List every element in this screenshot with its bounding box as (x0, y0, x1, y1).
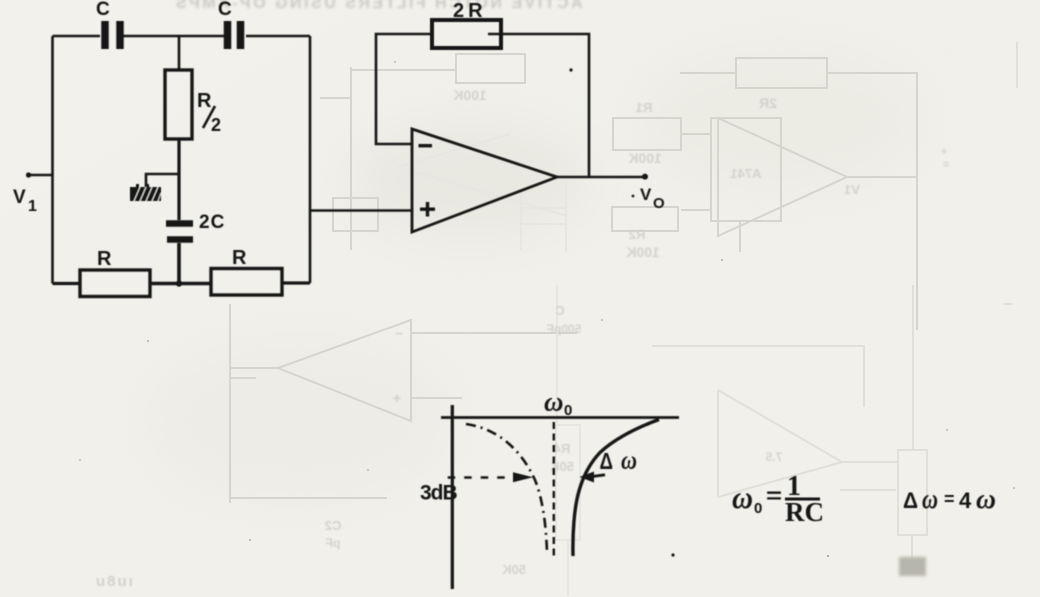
svg-text:C: C (96, 0, 110, 20)
svg-text:R4: R4 (553, 441, 570, 456)
svg-text:=: = (944, 489, 955, 509)
svg-text:C2: C2 (325, 518, 342, 533)
svg-text:1: 1 (28, 198, 37, 215)
svg-text:ω: ω (732, 479, 753, 515)
svg-text:O: O (653, 195, 665, 212)
svg-text:2R: 2R (453, 0, 487, 22)
svg-text:ω: ω (976, 484, 996, 515)
svg-text:R2: R2 (629, 227, 646, 242)
svg-text:R: R (197, 90, 212, 112)
svg-text:R: R (97, 248, 112, 270)
svg-text:3dB: 3dB (420, 482, 458, 505)
svg-text:C: C (555, 303, 565, 318)
svg-text:Δ: Δ (600, 448, 614, 474)
svg-text:100K: 100K (626, 244, 659, 260)
svg-text:ω: ω (544, 387, 564, 417)
svg-text:50K: 50K (501, 562, 525, 577)
svg-text:−: − (395, 326, 403, 341)
svg-text:ω: ω (922, 484, 938, 515)
svg-text:2R: 2R (759, 95, 777, 111)
svg-text:V1: V1 (844, 182, 860, 197)
svg-text:100K: 100K (628, 150, 661, 166)
svg-text:2C: 2C (199, 212, 225, 233)
svg-text:C: C (218, 0, 232, 20)
svg-text:R1: R1 (636, 100, 653, 115)
svg-text:pF: pF (326, 536, 341, 550)
svg-text:=: = (943, 159, 949, 171)
svg-text:0: 0 (564, 402, 572, 419)
svg-text:+: + (941, 146, 947, 158)
svg-text:R: R (232, 247, 247, 269)
svg-text:500pF: 500pF (547, 322, 582, 336)
svg-text:100K: 100K (453, 87, 486, 103)
svg-text:0: 0 (754, 500, 762, 517)
svg-text:A741: A741 (730, 166, 761, 181)
svg-text:2: 2 (211, 115, 221, 135)
svg-text:7.5: 7.5 (765, 450, 782, 464)
svg-text:4: 4 (959, 488, 972, 513)
svg-text:ACTIVE NOTCH FILTERS USING OP-: ACTIVE NOTCH FILTERS USING OP-AMPS (173, 0, 582, 12)
svg-text:u8uı: u8uı (96, 573, 135, 590)
svg-text:V: V (13, 187, 26, 208)
svg-text:RC: RC (785, 497, 824, 527)
svg-text:Δ: Δ (903, 488, 918, 513)
svg-text:V: V (640, 185, 652, 204)
svg-text:ω: ω (621, 446, 637, 475)
svg-text:=: = (766, 485, 782, 508)
svg-text:+: + (392, 390, 401, 407)
